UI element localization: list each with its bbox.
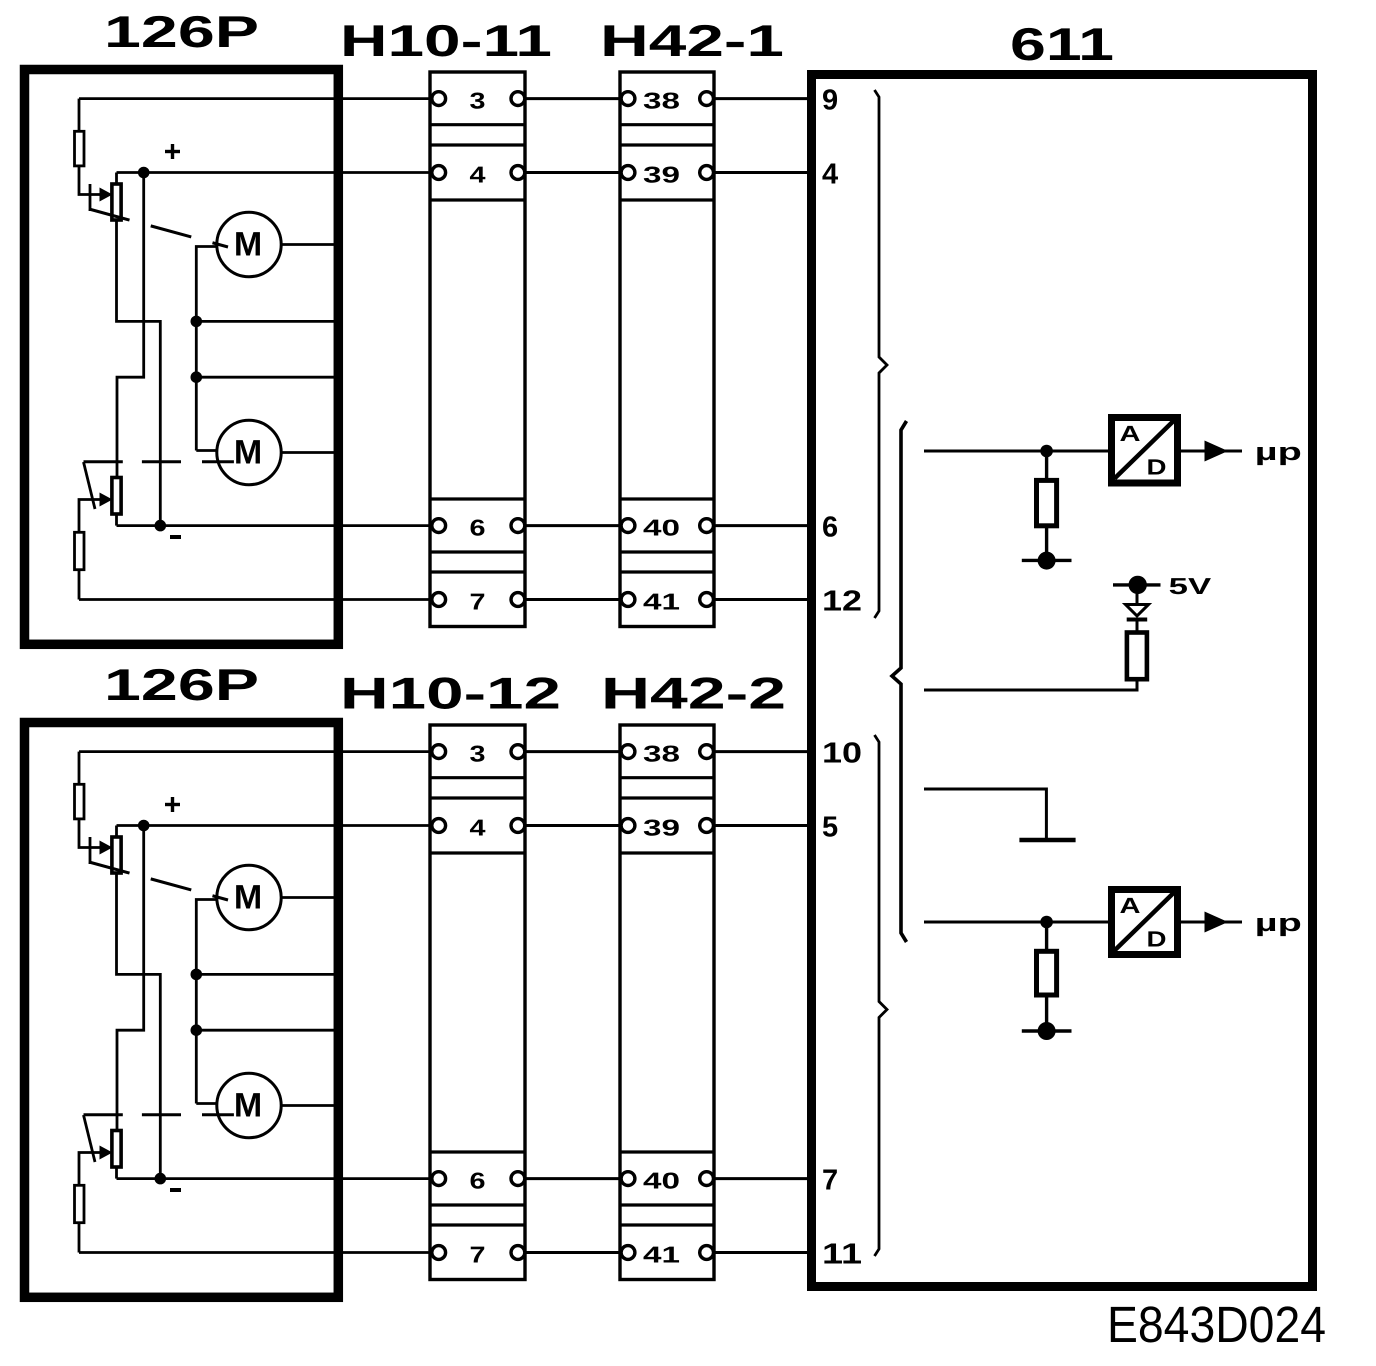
box 611 (control unit) <box>812 75 1313 1287</box>
pin circle H42-1-39 right <box>700 166 714 180</box>
wire H10/H42 upper row 7 <box>518 598 628 601</box>
svg-text:M: M <box>234 226 262 264</box>
resistor R5 (pull-up) <box>1127 633 1147 680</box>
wire M1(upper) right lead to case <box>281 243 338 246</box>
label + (lower) <box>165 803 180 806</box>
wire H10/H42 upper row 3 <box>518 97 628 100</box>
pin circle H10-11-6 right <box>511 519 525 533</box>
svg-text:6: 6 <box>470 515 486 541</box>
wire H10/H42 lower row 6 <box>518 1177 628 1180</box>
pin circle H42-2-39 right <box>700 819 714 833</box>
wire R4 bottom lead <box>1045 995 1048 1031</box>
motor M1(lower) left lead <box>196 900 218 975</box>
ground symbol <box>1019 838 1075 843</box>
wire R2(upper) bottom lead <box>78 570 81 600</box>
wire U1 output <box>1178 450 1243 453</box>
wire H42-611 upper row 38 <box>707 97 813 100</box>
pin circle H10-12-7 right <box>511 1246 525 1260</box>
svg-text:3: 3 <box>470 741 486 767</box>
wire R2(lower) bottom lead <box>78 1223 81 1253</box>
termination node 1 <box>1038 552 1056 570</box>
svg-text:M: M <box>234 1087 262 1125</box>
wire pin6 row (upper) (minus sense to H10 pin 6) <box>117 524 439 527</box>
connector H42-2 body <box>620 725 714 1280</box>
box 126P (upper) (sensor unit enclosure) <box>25 70 339 645</box>
potentiometer P2(lower) body <box>112 1131 121 1168</box>
wire H10/H42 upper row 4 <box>518 171 628 174</box>
svg-text:M: M <box>234 434 262 472</box>
svg-text:611: 611 <box>1010 18 1114 70</box>
svg-text:5V: 5V <box>1169 573 1212 599</box>
termination rail 1 <box>1022 559 1072 562</box>
wire R1(lower) top lead <box>78 752 81 785</box>
box 126P (lower) (sensor unit enclosure) <box>25 723 339 1298</box>
connector H10-12 body <box>430 725 525 1280</box>
wire D1 to R5 <box>1136 620 1139 633</box>
mechanical link P1(upper)-M1(upper) (dashed) <box>89 209 228 247</box>
svg-text:D: D <box>1147 927 1167 952</box>
wire H42-611 lower row 40 <box>707 1177 813 1180</box>
wiper arrow P2(upper) <box>100 493 113 507</box>
motor M2(lower) <box>217 1073 281 1137</box>
svg-text:A: A <box>1120 421 1141 446</box>
wire motor common tap 2 (upper) to case <box>196 376 338 379</box>
pin circle H42-1-40 right <box>700 519 714 533</box>
brace group pins 10/5/7/11 <box>875 735 888 1256</box>
wire A/D channel 1 input <box>924 450 1111 453</box>
resistor R3 (input load) <box>1037 480 1057 525</box>
svg-text:M: M <box>234 879 262 917</box>
resistor R2(lower) <box>75 1185 85 1222</box>
wire H10/H42 lower row 3 <box>518 750 628 753</box>
pin circle H42-2-38 right <box>700 745 714 759</box>
arrow U1 output <box>1205 441 1229 462</box>
wiper arrow P1(upper) <box>100 188 113 202</box>
junction motor net lower (upper) <box>191 371 203 383</box>
A/D converter U2 <box>1112 890 1178 955</box>
wire +supply net down to P2(upper) top <box>117 173 144 478</box>
motor M1(upper) left lead <box>196 247 218 322</box>
pin circle H10-11-3 right <box>511 92 525 106</box>
wire pin3 row (lower) (signal +feed to H10 pin 3) <box>79 750 439 753</box>
svg-text:10: 10 <box>822 738 862 770</box>
svg-text:9: 9 <box>822 85 838 117</box>
diode D1 (pull-up) <box>1126 605 1149 616</box>
svg-text:39: 39 <box>643 162 680 188</box>
wire H42-611 lower row 38 <box>707 750 813 753</box>
pin circle H10-11-4 left <box>432 166 446 180</box>
wire P1(lower) top terminal <box>115 826 118 838</box>
wire M2(lower) right lead to case <box>281 1104 338 1107</box>
pin circle H10-11-7 right <box>511 593 525 607</box>
wire H42-611 lower row 39 <box>707 824 813 827</box>
wiper arrow P1(lower) <box>100 841 113 855</box>
wire motor common tap 2 (lower) to case <box>196 1029 338 1032</box>
svg-text:D: D <box>1147 455 1167 480</box>
svg-text:4: 4 <box>470 162 486 188</box>
pin circle H42-2-40 left <box>621 1172 635 1186</box>
wire R1(upper) bottom lead to wiper P1(upper) <box>79 166 101 195</box>
svg-text:H10-11: H10-11 <box>340 17 552 66</box>
pin circle H10-11-7 left <box>432 593 446 607</box>
wire pin4 row (lower) (+ supply node to H10 pin 4) <box>117 824 439 827</box>
svg-text:7: 7 <box>470 589 486 615</box>
pin circle H42-1-39 left <box>621 166 635 180</box>
wiper contact bar P1(upper) <box>89 184 92 211</box>
pin circle H10-11-6 left <box>432 519 446 533</box>
wire R2(lower) top lead to wiper P2(lower) <box>79 1153 101 1186</box>
wire R5 to reference rail <box>924 679 1137 690</box>
pin circle H10-12-4 left <box>432 819 446 833</box>
svg-text:µp: µp <box>1255 439 1302 466</box>
A/D converter U1 <box>1112 418 1178 484</box>
wire +supply net down to P2(lower) top <box>117 826 144 1131</box>
wire P1(lower) bottom net down to minus node <box>117 873 161 1179</box>
connector H10-11 body <box>430 72 525 627</box>
pin circle H10-12-7 left <box>432 1246 446 1260</box>
wire pin6 row (lower) (minus sense to H10 pin 6) <box>117 1177 439 1180</box>
svg-text:4: 4 <box>822 159 838 191</box>
termination rail 2 <box>1022 1029 1072 1032</box>
svg-text:41: 41 <box>643 589 680 615</box>
pin circle H42-2-41 right <box>700 1246 714 1260</box>
motor M2(upper) <box>217 420 281 484</box>
wire motor common tap 1 (upper) to case <box>196 320 338 323</box>
potentiometer P1(lower) body <box>112 837 121 873</box>
mechanical link P1(lower)-M1(lower) (dashed) <box>89 862 228 900</box>
pin circle H42-2-41 left <box>621 1246 635 1260</box>
svg-text:6: 6 <box>822 512 838 544</box>
termination node 2 <box>1038 1022 1056 1040</box>
junction node +supply (upper) <box>138 167 150 179</box>
wire pin7 row (lower) (-feed to H10 pin 7) <box>79 1251 439 1254</box>
potentiometer P1(upper) body <box>112 184 121 220</box>
resistor R1(lower) <box>75 784 85 819</box>
svg-text:126P: 126P <box>104 8 259 57</box>
wire pin7 row (upper) (-feed to H10 pin 7) <box>79 598 439 601</box>
wire P2(upper) bottom terminal to minus row <box>115 514 118 526</box>
junction motor net upper (lower) <box>191 969 203 981</box>
pin circle H42-1-40 left <box>621 519 635 533</box>
resistor R1(upper) <box>75 131 85 166</box>
wire R2(upper) top lead to wiper P2(upper) <box>79 500 101 533</box>
label minus (upper) <box>170 535 181 539</box>
svg-text:A: A <box>1120 893 1141 918</box>
wire R1(lower) bottom lead to wiper P1(lower) <box>79 819 101 848</box>
wire A/D channel 2 input <box>924 921 1111 924</box>
wire P1(upper) top terminal <box>115 173 118 185</box>
label minus (lower) <box>170 1188 181 1192</box>
svg-text:38: 38 <box>643 741 680 767</box>
wire motor net (lower) vertical <box>195 974 198 1103</box>
motor M1(lower) <box>217 865 281 929</box>
wire motor net (upper) vertical <box>195 321 198 450</box>
svg-text:40: 40 <box>643 1168 680 1194</box>
svg-text:E843D024: E843D024 <box>1107 1296 1326 1353</box>
pin circle H10-11-3 left <box>432 92 446 106</box>
resistor R2(upper) <box>75 532 85 569</box>
arrow U2 output <box>1205 912 1229 933</box>
pin circle H10-11-4 right <box>511 166 525 180</box>
junction A/D2 input node <box>1040 916 1053 929</box>
wire H10/H42 lower row 7 <box>518 1251 628 1254</box>
pin circle H42-1-41 right <box>700 593 714 607</box>
svg-text:H42-2: H42-2 <box>601 670 786 719</box>
potentiometer P2(upper) body <box>112 478 121 515</box>
pin circle H42-1-38 left <box>621 92 635 106</box>
wire H10/H42 upper row 6 <box>518 524 628 527</box>
wire H42-611 upper row 41 <box>707 598 813 601</box>
connector H42-1 cell separators <box>620 125 714 572</box>
connector H42-1 body <box>620 72 714 627</box>
brace group A/D channel inputs <box>892 421 907 942</box>
motor M2(upper) left lead <box>196 449 218 452</box>
pin circle H42-2-40 right <box>700 1172 714 1186</box>
mechanical link P2(lower)-M2(lower) (dashed) <box>84 1113 234 1116</box>
svg-text:7: 7 <box>470 1242 486 1268</box>
pin circle H10-12-6 right <box>511 1172 525 1186</box>
wire H42-611 upper row 40 <box>707 524 813 527</box>
junction node minus (upper) <box>155 520 167 532</box>
mechanical link P2(upper) wiper tie <box>84 462 96 509</box>
wire H42-611 lower row 41 <box>707 1251 813 1254</box>
wire shield stub <box>924 789 1046 838</box>
wire 5V to diode D1 <box>1136 585 1139 604</box>
label + (upper) <box>165 150 180 153</box>
wire R3 bottom lead <box>1045 526 1048 561</box>
svg-text:6: 6 <box>470 1168 486 1194</box>
svg-text:7: 7 <box>822 1165 838 1197</box>
wire M1(lower) right lead to case <box>281 896 338 899</box>
junction node +supply (lower) <box>138 820 150 832</box>
wire motor common tap 1 (lower) to case <box>196 973 338 976</box>
connector H10-11 cell separators <box>430 125 525 572</box>
svg-text:11: 11 <box>822 1239 862 1271</box>
wire R1(upper) top lead <box>78 99 81 132</box>
wire pin4 row (upper) (+ supply node to H10 pin 4) <box>117 171 439 174</box>
wire H42-611 upper row 39 <box>707 171 813 174</box>
svg-text:39: 39 <box>643 815 680 841</box>
mechanical link P2(upper)-M2(upper) (dashed) <box>84 460 234 463</box>
wiper contact bar P1(lower) <box>89 837 92 864</box>
svg-text:4: 4 <box>470 815 486 841</box>
wire R4 top lead <box>1045 922 1048 951</box>
connector H42-2 cell separators <box>620 778 714 1225</box>
wire R3 top lead <box>1045 451 1048 480</box>
svg-text:H10-12: H10-12 <box>340 670 561 719</box>
pin circle H10-12-6 left <box>432 1172 446 1186</box>
pin circle H42-1-41 left <box>621 593 635 607</box>
svg-text:40: 40 <box>643 515 680 541</box>
node 5V supply <box>1113 583 1161 586</box>
svg-text:5: 5 <box>822 812 838 844</box>
motor M2(lower) left lead <box>196 1102 218 1105</box>
wire M2(upper) right lead to case <box>281 451 338 454</box>
junction A/D1 input node <box>1040 445 1053 458</box>
pin circle H10-12-4 right <box>511 819 525 833</box>
svg-text:H42-1: H42-1 <box>600 17 784 66</box>
svg-text:126P: 126P <box>104 661 259 710</box>
resistor R4 (input load) <box>1037 951 1057 995</box>
svg-text:3: 3 <box>470 88 486 114</box>
connector H10-12 cell separators <box>430 778 525 1225</box>
wire U2 output <box>1178 921 1243 924</box>
pin circle H42-1-38 right <box>700 92 714 106</box>
junction motor net upper (upper) <box>191 316 203 328</box>
wire H10/H42 lower row 4 <box>518 824 628 827</box>
svg-text:12: 12 <box>822 586 862 618</box>
wire P1(upper) bottom net down to minus node <box>117 220 161 526</box>
junction motor net lower (lower) <box>191 1024 203 1036</box>
pin circle H42-2-38 left <box>621 745 635 759</box>
motor M1(upper) <box>217 212 281 276</box>
junction node minus (lower) <box>155 1173 167 1185</box>
brace group pins 9/4/6/12 <box>875 90 888 618</box>
mechanical link P2(lower) wiper tie <box>84 1115 96 1162</box>
svg-text:41: 41 <box>643 1242 680 1268</box>
pin circle H10-12-3 left <box>432 745 446 759</box>
pin circle H10-12-3 right <box>511 745 525 759</box>
wire P2(lower) bottom terminal to minus row <box>115 1167 118 1179</box>
svg-text:µp: µp <box>1255 910 1302 937</box>
wiper arrow P2(lower) <box>100 1146 113 1160</box>
pin circle H42-2-39 left <box>621 819 635 833</box>
svg-text:38: 38 <box>643 88 680 114</box>
wire pin3 row (upper) (signal +feed to H10 pin 3) <box>79 97 439 100</box>
